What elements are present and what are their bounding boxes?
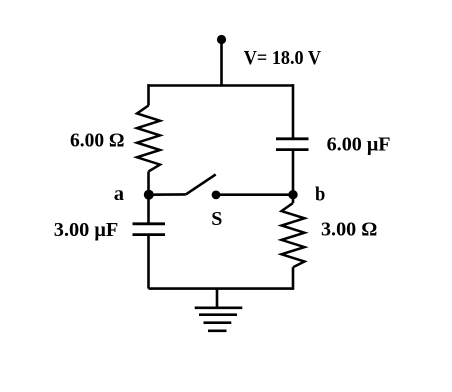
svg-text:b: b — [315, 184, 325, 206]
svg-text:S: S — [211, 208, 222, 230]
svg-text:a: a — [114, 183, 124, 205]
svg-text:6.00 μF: 6.00 μF — [327, 133, 391, 155]
svg-text:3.00 μF: 3.00 μF — [54, 219, 119, 241]
svg-text:6.00 Ω: 6.00 Ω — [70, 129, 125, 151]
svg-text:3.00 Ω: 3.00 Ω — [321, 219, 377, 241]
svg-text:V= 18.0 V: V= 18.0 V — [244, 47, 322, 69]
